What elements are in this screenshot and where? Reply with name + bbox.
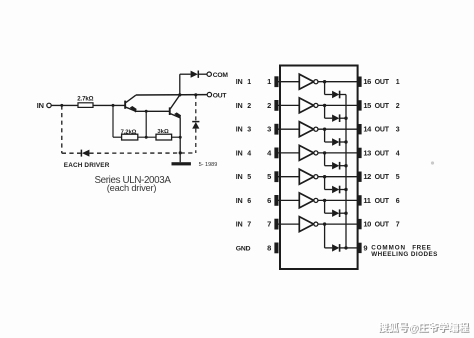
wire inverter 7 output to pin 10 (318, 223, 358, 225)
inverter U1f bubble (314, 198, 318, 202)
pin 7 number (267, 220, 271, 229)
label OUT 6 (pin 11) (375, 198, 400, 205)
junction R2/R3 mid vertical (145, 136, 148, 139)
junction diode 4 to common bus (344, 164, 347, 167)
svg-text:4: 4 (396, 150, 400, 157)
wire input pin 5 to inverter 5 (279, 176, 300, 178)
label GND (pin 8) (236, 245, 251, 252)
wire output 7 drop to diode 7 (324, 224, 326, 248)
wire dashed clamp branch upper (195, 95, 197, 122)
pin 11 number (363, 196, 370, 205)
pin 10 number (363, 220, 371, 229)
label OUT 3 (pin 14) (375, 127, 400, 134)
label R2 value 7.2kOhm (121, 129, 137, 135)
wire output 2 drop to diode 2 (324, 105, 326, 118)
node IN terminal circle (47, 103, 51, 107)
pin 9 stub (358, 243, 362, 253)
pin 13 number (363, 148, 371, 157)
svg-text:7.2kΩ: 7.2kΩ (121, 129, 137, 135)
junction output 3 to diode 3 (323, 128, 326, 131)
label OUT 1 (pin 16) (375, 79, 400, 86)
pin 2 stub (274, 100, 278, 111)
pin 15 number (363, 101, 371, 110)
junction rail / COM tap (178, 93, 181, 96)
wire mid vertical down to resistor row (145, 111, 147, 137)
svg-text:OUT: OUT (375, 79, 390, 86)
inverter U1g bubble (314, 222, 318, 226)
wire R2 tap vertical (112, 105, 114, 137)
label R3 value 3kOhm (157, 129, 169, 135)
junction ground node (179, 151, 182, 154)
inverter U1d triangle (299, 145, 313, 160)
inverter U1f triangle (299, 193, 313, 208)
junction diode 3 to common bus (344, 140, 347, 143)
pin 16 stub (358, 77, 362, 87)
diode CR2 freewheeling (325, 114, 346, 122)
diode CR7 freewheeling (325, 244, 346, 252)
svg-text:IN: IN (236, 103, 243, 110)
wire inverter 3 output to pin 14 (318, 128, 358, 130)
wire output 6 drop to diode 6 (324, 200, 326, 213)
pin 4 stub (274, 148, 278, 159)
pin 13 stub (358, 148, 362, 158)
pin 8 stub (274, 243, 278, 254)
pin 16 number (363, 77, 371, 86)
svg-text:1: 1 (396, 79, 400, 86)
wire inverter 1 output to pin 16 (318, 81, 358, 83)
svg-text:OUT: OUT (375, 198, 390, 205)
transistor Q1 collector (126, 95, 136, 102)
junction output 7 to diode 7 (323, 222, 326, 225)
wire input pin 2 to inverter 2 (279, 104, 300, 106)
wire COM line to diode (180, 73, 191, 75)
wire input pin 1 to inverter 1 (279, 81, 300, 83)
diode D1 to COM (191, 71, 207, 78)
svg-text:8: 8 (267, 243, 271, 252)
wire dashed driver-box bottom left (62, 152, 81, 154)
svg-text:IN: IN (236, 198, 243, 205)
svg-text:16: 16 (363, 77, 371, 86)
junction on IN wire (dashed box tap) (60, 104, 63, 107)
wire to R2 left end (113, 136, 122, 138)
wire COM tap vertical (179, 74, 181, 95)
junction output 1 to diode 1 (323, 80, 326, 83)
pin 2 number (267, 101, 271, 110)
resistor R2 7.2k (122, 134, 138, 140)
wire common bus to pin 9 (346, 247, 358, 249)
wire output 1 drop to diode 1 (324, 82, 326, 95)
svg-text:11: 11 (363, 196, 370, 205)
svg-text:14: 14 (363, 125, 372, 134)
svg-text:10: 10 (363, 220, 371, 229)
svg-text:IN: IN (236, 127, 243, 134)
IC body U1 (280, 66, 358, 270)
svg-text:13: 13 (363, 148, 371, 157)
pin 1 number (267, 77, 271, 86)
label OUT 2 (pin 15) (375, 103, 400, 110)
svg-text:1: 1 (247, 79, 251, 86)
pin 1 stub (274, 76, 278, 87)
svg-text:9: 9 (363, 243, 367, 252)
inverter U1c triangle (299, 122, 313, 137)
svg-text:OUT: OUT (375, 127, 390, 134)
inverter U1g triangle (299, 217, 313, 232)
svg-text:OUT: OUT (375, 222, 390, 229)
pin 8 number (267, 243, 271, 252)
diode D3 each-driver (points left) (81, 150, 89, 157)
svg-text:2: 2 (247, 103, 251, 110)
svg-text:7: 7 (396, 222, 400, 229)
svg-text:GND: GND (236, 245, 251, 252)
svg-text:3kΩ: 3kΩ (157, 129, 169, 135)
diode CR3 freewheeling (325, 138, 346, 146)
svg-text:OUT: OUT (375, 150, 390, 157)
junction R3 to emitter drop (179, 136, 182, 139)
resistor R1 2.7k (78, 103, 93, 108)
ground symbol (172, 153, 191, 166)
inverter U1e bubble (314, 175, 318, 179)
label IN 3 (pin 3) (236, 127, 252, 134)
label IN 7 (pin 7) (236, 222, 252, 229)
svg-text:6: 6 (267, 196, 271, 205)
wire inverter 6 output to pin 11 (318, 199, 358, 201)
svg-text:12: 12 (363, 172, 371, 181)
svg-text:5: 5 (396, 174, 400, 181)
diode D2 output clamp (points up) (192, 122, 199, 129)
transistor Q2 emitter with arrow (170, 112, 181, 119)
junction diode 2 to common bus (344, 117, 347, 120)
svg-text:EACH DRIVER: EACH DRIVER (64, 162, 110, 169)
caption (each driver) (107, 183, 157, 193)
wire R3 right to emitter line (172, 136, 181, 138)
junction diode 7 to common bus (344, 246, 347, 249)
label IN 1 (pin 1) (236, 79, 252, 86)
pin 14 stub (358, 124, 362, 134)
inverter U1b triangle (299, 98, 313, 113)
label COMMON FREE WHEELING DIODES (pin 9) (371, 245, 438, 258)
scan speck (431, 161, 434, 164)
wire input pin 7 to inverter 7 (279, 223, 300, 225)
svg-text:5: 5 (247, 174, 251, 181)
resistor R3 3k (156, 134, 172, 140)
diode CR1 freewheeling (325, 91, 346, 99)
junction output 6 to diode 6 (323, 199, 326, 202)
transistor Q1 base bar (124, 101, 126, 109)
pin 14 number (363, 125, 372, 134)
pin 9 number (363, 243, 367, 252)
junction output 4 to diode 4 (323, 151, 326, 154)
pin 6 stub (274, 195, 278, 206)
pin 5 number (267, 172, 271, 181)
label OUT 7 (pin 10) (375, 222, 400, 229)
svg-text:IN: IN (236, 79, 243, 86)
pin 4 number (267, 148, 272, 157)
pin 12 number (363, 172, 371, 181)
pin 15 stub (358, 100, 362, 110)
wire IN to R1 and base of Q1 (51, 104, 124, 106)
pin 6 number (267, 196, 271, 205)
wire dashed clamp branch lower (195, 129, 197, 153)
diode CR4 freewheeling (325, 162, 346, 170)
junction diode 6 to common bus (344, 212, 347, 215)
label COM (213, 72, 229, 79)
wire R2 right to mid junction (138, 136, 156, 138)
svg-text:3: 3 (396, 127, 400, 134)
svg-text:WHEELING DIODES: WHEELING DIODES (371, 251, 438, 258)
svg-text:COM: COM (213, 72, 229, 79)
inverter U1e triangle (299, 169, 313, 184)
wire input pin 3 to inverter 3 (279, 128, 300, 130)
wire inverter 2 output to pin 15 (318, 104, 358, 106)
diode CR6 freewheeling (325, 209, 346, 217)
label OUT 4 (pin 13) (375, 150, 400, 157)
label OUT (213, 93, 228, 100)
wire Q2 emitter drop (179, 117, 181, 152)
caption Series ULN-2003A (94, 175, 171, 186)
transistor Q2 base bar (169, 107, 171, 115)
label EACH DRIVER (64, 162, 110, 169)
label IN 4 (pin 4) (236, 150, 252, 157)
inverter U1a triangle (299, 74, 313, 89)
pin 11 stub (358, 195, 362, 205)
svg-text:OUT: OUT (375, 103, 390, 110)
diode CR5 freewheeling (325, 186, 346, 194)
svg-text:2.7kΩ: 2.7kΩ (77, 96, 93, 103)
wire common freewheeling bus vertical (345, 95, 347, 248)
label IN 2 (pin 2) (236, 103, 252, 110)
svg-text:6: 6 (396, 198, 400, 205)
label R1 value 2.7kOhm (77, 96, 93, 103)
svg-text:(each driver): (each driver) (107, 183, 157, 193)
svg-text:2: 2 (396, 103, 400, 110)
pin 5 stub (274, 171, 278, 182)
inverter U1d bubble (314, 151, 318, 155)
svg-text:IN: IN (37, 101, 44, 110)
pin 7 stub (274, 219, 278, 230)
wire Q1 emitter to Q2 base (135, 110, 169, 112)
wire output 4 drop to diode 4 (324, 153, 326, 166)
svg-text:IN: IN (236, 174, 243, 181)
svg-text:7: 7 (267, 220, 271, 229)
label IN 6 (pin 6) (236, 198, 252, 205)
svg-text:5: 5 (267, 172, 271, 181)
transistor Q1 emitter with arrow (126, 106, 137, 113)
junction emitter node to R2/R3 drop (145, 110, 148, 113)
svg-text:6: 6 (247, 198, 251, 205)
wire collector rail to OUT (136, 94, 207, 96)
wire input pin 4 to inverter 4 (279, 152, 300, 154)
wire dashed driver-box left side (61, 105, 63, 153)
junction rail / clamp diode tap (194, 93, 197, 96)
wire inverter 5 output to pin 12 (318, 176, 358, 178)
svg-text:4: 4 (247, 150, 251, 157)
svg-text:15: 15 (363, 101, 371, 110)
inverter U1b bubble (314, 103, 318, 107)
svg-text:搜狐号@庄爷学编程: 搜狐号@庄爷学编程 (378, 321, 469, 334)
junction output 5 to diode 5 (323, 175, 326, 178)
wire inverter 4 output to pin 13 (318, 152, 358, 154)
pin 12 stub (358, 172, 362, 182)
svg-text:3: 3 (247, 127, 251, 134)
pin 3 stub (274, 124, 278, 135)
node IN terminal label (37, 101, 44, 110)
wire output 5 drop to diode 5 (324, 177, 326, 190)
svg-text:5- 1989: 5- 1989 (199, 162, 218, 168)
label 5-1989 (199, 162, 218, 168)
node OUT terminal circle (207, 92, 211, 96)
pin 10 stub (358, 219, 362, 229)
junction diode 5 to common bus (344, 188, 347, 191)
svg-text:3: 3 (267, 125, 271, 134)
transistor Q2 collector (170, 95, 179, 109)
wire output 3 drop to diode 3 (324, 129, 326, 142)
svg-text:IN: IN (236, 150, 243, 157)
junction output 2 to diode 2 (323, 104, 326, 107)
svg-text:1: 1 (267, 77, 271, 86)
svg-text:IN: IN (236, 222, 243, 229)
svg-text:2: 2 (267, 101, 271, 110)
svg-text:OUT: OUT (375, 174, 390, 181)
watermark sohu (378, 321, 470, 335)
label IN 5 (pin 5) (236, 174, 252, 181)
junction on IN wire (R2 tap) (112, 104, 115, 107)
svg-text:7: 7 (247, 222, 251, 229)
pin 3 number (267, 125, 271, 134)
svg-text:OUT: OUT (213, 93, 228, 100)
wire dashed driver-box bottom right (89, 152, 195, 154)
wire input pin 6 to inverter 6 (279, 199, 300, 201)
label OUT 5 (pin 12) (375, 174, 400, 181)
node COM terminal circle (207, 72, 211, 76)
inverter U1c bubble (314, 127, 318, 131)
inverter U1a bubble (314, 80, 318, 84)
